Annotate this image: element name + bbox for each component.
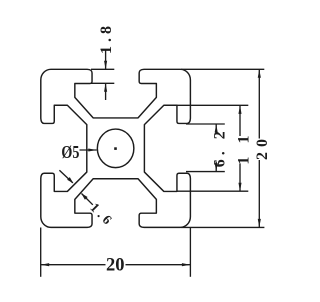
- svg-text:11: 11: [235, 121, 252, 164]
- svg-text:20: 20: [106, 255, 125, 275]
- svg-text:Ø5: Ø5: [61, 142, 79, 162]
- svg-text:6. 2: 6. 2: [212, 127, 229, 167]
- svg-text:1.8: 1.8: [98, 22, 115, 54]
- svg-text:20: 20: [254, 134, 271, 160]
